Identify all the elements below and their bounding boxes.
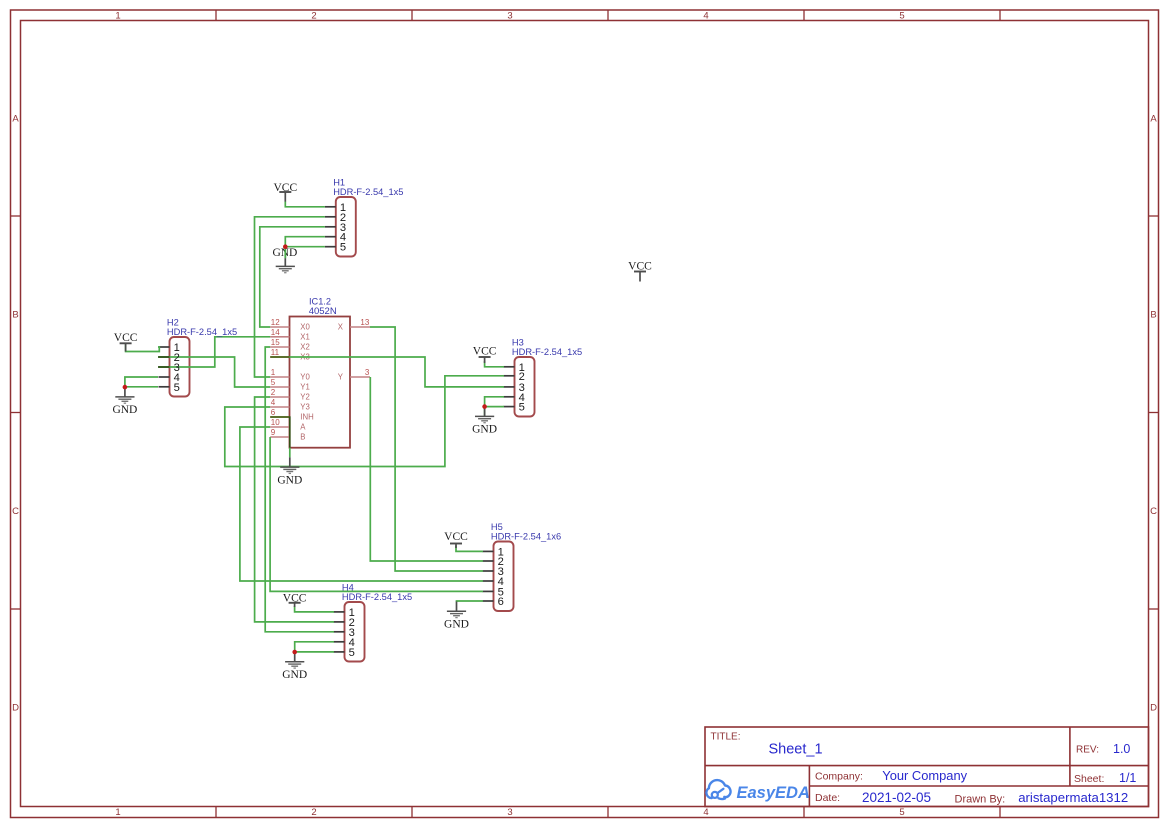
svg-text:aristapermata1312: aristapermata1312 — [1018, 790, 1128, 805]
svg-text:5: 5 — [271, 378, 276, 387]
wire H2 pin5 to GND junction — [125, 386, 158, 388]
VCC symbol at H1 — [273, 182, 297, 202]
svg-text:H5: H5 — [491, 522, 503, 532]
pin numbers H2 — [174, 342, 180, 394]
svg-text:1: 1 — [115, 11, 120, 22]
svg-text:A: A — [1150, 113, 1157, 124]
svg-text:2: 2 — [311, 11, 316, 22]
svg-text:B: B — [1150, 309, 1156, 320]
svg-text:B: B — [12, 309, 18, 320]
svg-text:REV:: REV: — [1076, 745, 1099, 756]
wire overlap INH stub to GND — [270, 416, 290, 447]
svg-text:4: 4 — [271, 398, 276, 407]
svg-text:TITLE:: TITLE: — [711, 732, 741, 743]
svg-text:D: D — [12, 702, 19, 713]
label H2 HDR-F-2.54_1x5 — [167, 318, 237, 338]
svg-text:Y2: Y2 — [300, 393, 310, 402]
wire H2 pin4 to GND junction — [125, 377, 158, 387]
svg-text:HDR-F-2.54_1x5: HDR-F-2.54_1x5 — [333, 187, 403, 197]
svg-text:4052N: 4052N — [309, 306, 337, 317]
svg-text:1: 1 — [115, 807, 120, 818]
wire IC1.2 X pin13 to H5 pin3 — [370, 327, 483, 571]
junction at H2 GND — [123, 385, 128, 390]
svg-text:VCC: VCC — [444, 531, 468, 543]
floating VCC symbol — [628, 261, 652, 282]
pin numbers H4 — [349, 607, 355, 659]
svg-text:1: 1 — [271, 368, 276, 377]
label H1 HDR-F-2.54_1x5 — [333, 178, 403, 198]
wire H1 pin4 to GND junction — [285, 237, 325, 247]
svg-text:Sheet:: Sheet: — [1074, 773, 1104, 785]
wire IC1.2 B pin9 to H5 pin5 — [270, 437, 483, 591]
pin numbers H3 — [519, 362, 525, 414]
svg-text:HDR-F-2.54_1x5: HDR-F-2.54_1x5 — [512, 347, 582, 357]
junction at H3 GND — [482, 404, 487, 409]
junction at H4 GND — [292, 650, 297, 655]
svg-text:VCC: VCC — [473, 346, 497, 358]
ground at H5 — [444, 602, 469, 631]
connector H2 HDR-F-2.54_1x5 body and pins — [159, 337, 190, 397]
svg-text:Sheet_1: Sheet_1 — [769, 741, 823, 757]
wire H1 pin3 to IC1.2 X0 pin12 — [260, 227, 325, 327]
EasyEDA logo — [706, 780, 809, 802]
svg-text:A: A — [300, 423, 306, 432]
wire IC1.2 Y2 pin2 to H4 pin2 — [255, 397, 334, 622]
svg-text:1/1: 1/1 — [1119, 771, 1136, 785]
svg-text:5: 5 — [899, 807, 904, 818]
wire overlap X3 stub — [270, 356, 289, 358]
IC IC1.2 4052N body and pins — [270, 317, 370, 448]
ground at IC1.2 — [277, 457, 302, 486]
svg-text:A: A — [12, 113, 19, 124]
wire VCC to H2 pin1 — [126, 344, 160, 352]
svg-text:EasyEDA: EasyEDA — [737, 784, 810, 802]
svg-text:2: 2 — [271, 388, 276, 397]
label H4 HDR-F-2.54_1x5 — [342, 583, 412, 603]
wire IC1.2 X2 pin15 to H4 pin3 — [265, 347, 334, 632]
svg-text:Y0: Y0 — [300, 373, 310, 382]
svg-text:H1: H1 — [333, 178, 345, 188]
svg-text:6: 6 — [271, 408, 276, 417]
pin numbers H1 — [340, 202, 346, 254]
svg-text:5: 5 — [174, 382, 180, 394]
VCC symbol at H2 — [114, 332, 138, 351]
wire VCC to H3 pin1 — [485, 361, 504, 367]
connector H4 HDR-F-2.54_1x5 body and pins — [334, 602, 365, 662]
svg-text:HDR-F-2.54_1x5: HDR-F-2.54_1x5 — [342, 592, 412, 602]
connector H5 HDR-F-2.54_1x6 body and pins — [483, 542, 514, 612]
ground at H3 — [472, 407, 497, 436]
ground at H2 — [112, 387, 137, 416]
wire overlap H2 pin3 stub — [158, 366, 170, 368]
svg-text:9: 9 — [271, 428, 276, 437]
wire H3 pin4 to GND junction — [485, 397, 504, 407]
svg-text:H3: H3 — [512, 338, 524, 348]
svg-text:Y3: Y3 — [300, 403, 310, 412]
VCC symbol at H4 — [283, 592, 307, 607]
pin numbers H5 — [498, 546, 504, 608]
svg-text:5: 5 — [519, 402, 525, 414]
svg-text:Y: Y — [338, 373, 344, 382]
wire overlap H2 pin2 stub — [158, 356, 170, 358]
svg-text:X1: X1 — [300, 333, 310, 342]
svg-text:Company:: Company: — [815, 771, 863, 783]
svg-text:GND: GND — [282, 669, 307, 681]
svg-text:D: D — [1150, 702, 1157, 713]
wire H4 pin5 to GND junction — [295, 652, 334, 654]
svg-text:Y1: Y1 — [300, 383, 310, 392]
svg-text:5: 5 — [899, 11, 904, 22]
label H5 HDR-F-2.54_1x6 — [491, 522, 561, 542]
svg-text:11: 11 — [271, 348, 280, 357]
wire H5 pin6 to GND — [457, 601, 484, 602]
label H3 HDR-F-2.54_1x5 — [512, 338, 582, 358]
svg-text:3: 3 — [507, 807, 512, 818]
wire VCC to H4 pin1 — [295, 606, 334, 612]
wire H3 pin5 to GND junction — [485, 407, 504, 416]
svg-text:12: 12 — [271, 318, 280, 327]
svg-text:2: 2 — [311, 807, 316, 818]
svg-text:3: 3 — [507, 11, 512, 22]
svg-text:C: C — [1150, 506, 1157, 517]
svg-text:GND: GND — [472, 424, 497, 436]
wire H2 pin3 to IC1.2 X1 pin14 — [170, 337, 271, 367]
wire H4 pin4 to GND junction — [295, 642, 334, 652]
wire VCC to H1 pin1 — [285, 201, 325, 206]
svg-text:Date:: Date: — [815, 792, 840, 804]
svg-text:X0: X0 — [300, 323, 310, 332]
svg-text:X2: X2 — [300, 343, 310, 352]
svg-text:H4: H4 — [342, 583, 354, 593]
wire VCC to H5 pin1 — [456, 546, 483, 552]
svg-text:H2: H2 — [167, 318, 179, 328]
svg-text:1.0: 1.0 — [1113, 742, 1130, 756]
wire H1 pin2 to IC1.2 Y0 pin1 — [255, 217, 325, 377]
VCC symbol at H3 — [473, 346, 497, 364]
svg-text:4: 4 — [703, 807, 708, 818]
svg-text:3: 3 — [365, 368, 370, 377]
title block — [705, 727, 1149, 807]
svg-text:GND: GND — [112, 404, 137, 416]
svg-text:2021-02-05: 2021-02-05 — [862, 790, 931, 805]
svg-text:Drawn By:: Drawn By: — [955, 793, 1006, 805]
svg-text:15: 15 — [271, 338, 280, 347]
svg-text:5: 5 — [340, 242, 346, 254]
svg-text:C: C — [12, 506, 19, 517]
svg-text:13: 13 — [360, 318, 369, 327]
wire IC1.2 INH pin6 to GND — [289, 448, 291, 458]
ground at H1 — [272, 247, 297, 273]
svg-text:GND: GND — [444, 619, 469, 631]
VCC symbol at H5 — [444, 531, 468, 548]
wire IC1.2 A pin10 to H5 pin4 — [240, 427, 483, 581]
connector H3 HDR-F-2.54_1x5 body and pins — [504, 357, 535, 417]
wire IC1.2 X3 pin11 to H3 pin3 — [290, 357, 505, 387]
svg-text:B: B — [300, 433, 305, 442]
wire H2 pin2 to IC1.2 Y1 pin5 — [170, 357, 271, 387]
svg-text:HDR-F-2.54_1x5: HDR-F-2.54_1x5 — [167, 327, 237, 337]
svg-text:X: X — [338, 323, 344, 332]
wire H1 pin5 to GND junction — [285, 247, 325, 259]
svg-text:6: 6 — [498, 596, 504, 608]
wire IC1.2 Y pin3 to H5 pin2 — [370, 377, 483, 561]
wire IC1.2 Y3 pin4 to H3 pin2 — [225, 376, 504, 467]
svg-text:Your Company: Your Company — [882, 768, 967, 783]
svg-text:4: 4 — [703, 11, 708, 22]
svg-text:5: 5 — [349, 647, 355, 659]
svg-text:GND: GND — [277, 474, 302, 486]
svg-text:HDR-F-2.54_1x6: HDR-F-2.54_1x6 — [491, 532, 561, 542]
junction at H1 GND — [283, 244, 288, 249]
ground at H4 — [282, 652, 307, 681]
svg-text:INH: INH — [300, 413, 313, 422]
connector H1 HDR-F-2.54_1x5 body and pins — [325, 197, 356, 257]
label IC1.2 4052N — [309, 297, 337, 317]
svg-text:10: 10 — [271, 418, 280, 427]
svg-text:14: 14 — [271, 328, 280, 337]
